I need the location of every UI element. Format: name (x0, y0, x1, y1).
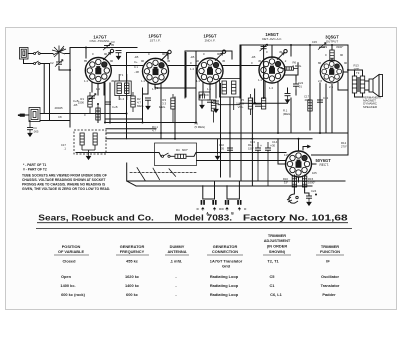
ground below grid box (200, 103, 204, 109)
wire stage5 drops (310, 45, 332, 133)
speaker (369, 75, 383, 97)
svg-text:45: 45 (279, 50, 283, 54)
wire stage2 top rail (127, 53, 169, 139)
ground below T1 (86, 154, 90, 160)
wire stage3 top rail (185, 51, 232, 98)
ground below C4 (28, 131, 32, 137)
svg-text:.00025: .00025 (54, 106, 63, 110)
svg-text:6 MEG.: 6 MEG. (293, 64, 303, 68)
capacitor C21 (213, 101, 219, 107)
loop antenna L1 (20, 48, 29, 60)
wire U4 extra stubs (265, 63, 298, 98)
wire interstage grid lines (111, 65, 259, 67)
svg-text:FREQUENCY: FREQUENCY (120, 249, 145, 254)
svg-text:Closed: Closed (63, 259, 77, 264)
resistor R2 (131, 92, 135, 112)
svg-text:0.1: 0.1 (134, 65, 138, 69)
svg-text:2.8: 2.8 (318, 79, 322, 83)
table top rule (36, 228, 352, 230)
svg-text:DET.-AVC-A.F.: DET.-AVC-A.F. (262, 37, 282, 41)
svg-text:Radiating Loop: Radiating Loop (210, 274, 239, 279)
svg-text:90: 90 (141, 59, 145, 63)
svg-text:CHASSIS. VOLTAGE READINGS SHO: CHASSIS. VOLTAGE READINGS SHOWN AT SOCKE… (22, 178, 105, 182)
svg-text:90: 90 (104, 52, 108, 56)
wire bus filament y152 (76, 153, 286, 157)
wire chassis box bottom (127, 163, 345, 186)
resistor R15 (302, 176, 306, 187)
capacitor C20 (145, 98, 151, 104)
svg-text:1.4: 1.4 (152, 87, 156, 91)
svg-text:1400 kc: 1400 kc (125, 283, 140, 288)
svg-text:35: 35 (111, 43, 115, 47)
svg-text:1.4: 1.4 (190, 67, 194, 71)
label U2 (149, 34, 162, 43)
svg-text:R4: R4 (176, 148, 180, 152)
svg-text:1600*: 1600* (308, 181, 316, 185)
wire bus B- y133 (106, 129, 348, 133)
label U5 (325, 35, 339, 44)
wire tube2 drops (143, 53, 197, 139)
svg-text:45: 45 (258, 59, 262, 63)
svg-text:90: 90 (344, 61, 348, 65)
svg-text:C12: C12 (323, 96, 329, 100)
svg-text:OSC.-TRANSL.: OSC.-TRANSL. (89, 39, 110, 43)
svg-text:1ST. I.F.: 1ST. I.F. (150, 39, 161, 43)
svg-text:1.4: 1.4 (258, 78, 262, 82)
svg-text:C5: C5 (270, 274, 276, 279)
capacitor C7 padder (88, 94, 96, 101)
svg-text:RECT.: RECT. (320, 163, 329, 167)
oscillator coil T5 (96, 104, 100, 120)
svg-text:-.08: -.08 (134, 70, 139, 74)
svg-text:.01: .01 (298, 85, 302, 89)
svg-text:# - PART OF T2: # - PART OF T2 (23, 168, 47, 172)
grid cap U2 (161, 50, 172, 61)
wire tube1 top feed (85, 48, 87, 59)
capacitor C24 (306, 196, 312, 200)
volume control R5 (248, 94, 256, 115)
capacitor C5 trimmer (260, 44, 268, 51)
svg-text:C8: C8 (58, 115, 62, 119)
tuning gang section B (222, 200, 247, 215)
svg-text:270*: 270* (341, 145, 348, 149)
phone plug P1 (18, 114, 24, 117)
capacitor C15 trimmer (318, 43, 326, 50)
grid cap U3 (215, 50, 226, 61)
junction dots (69, 44, 349, 154)
IF transformer T1 shield box (bottom) (74, 130, 106, 154)
capacitor C9 (207, 100, 213, 102)
variable capacitor C1 starburst (52, 46, 66, 58)
switch box outline (155, 143, 197, 166)
wire tube1 cathode drop (98, 83, 110, 123)
svg-text:105: 105 (312, 171, 317, 175)
svg-text:Radiating Loop: Radiating Loop (210, 283, 239, 288)
wire rect tube leads (278, 139, 316, 190)
electrolytic C13 (255, 142, 262, 181)
wire gangB stubs (227, 181, 239, 199)
svg-text:FUNCTION: FUNCTION (320, 249, 340, 254)
svg-text:1.4: 1.4 (141, 79, 145, 83)
svg-text:85: 85 (84, 59, 88, 63)
svg-text:ADJUSTMENT: ADJUSTMENT (264, 238, 291, 243)
svg-text:.005: .005 (33, 130, 39, 134)
svg-text:T1: T1 (120, 73, 124, 77)
svg-text:C2: C2 (50, 61, 54, 65)
capacitor C19 with ground (116, 51, 122, 60)
svg-text:90: 90 (110, 59, 114, 63)
resistor R8 (211, 100, 215, 123)
tube U3 1P5GT (197, 58, 223, 84)
wire U5 extra stubs (338, 83, 348, 91)
svg-text:.005: .005 (304, 98, 310, 102)
svg-text:C1: C1 (270, 283, 276, 288)
resistor R16 (292, 176, 296, 187)
svg-text:Model 7083.: Model 7083. (174, 213, 232, 222)
svg-text:455 kc: 455 kc (126, 259, 139, 264)
svg-text:1.4: 1.4 (120, 97, 124, 101)
resistor R6 (281, 67, 299, 70)
svg-text:-1B: -1B (134, 55, 138, 59)
grid coupling box (199, 92, 210, 103)
tube U2 1P5GT (143, 58, 169, 84)
resistor R11 (308, 100, 312, 130)
tube U5 3Q5GT (320, 60, 343, 83)
svg-text:T2, T1: T2, T1 (267, 259, 279, 264)
svg-text:C15: C15 (312, 40, 318, 44)
svg-text:C+: C+ (134, 60, 138, 64)
ground below C20 (146, 104, 150, 110)
svg-text:1.4: 1.4 (196, 79, 200, 83)
svg-text:600*: 600* (182, 148, 189, 152)
capacitor C3 trimmer (103, 43, 111, 50)
svg-text:117: 117 (284, 153, 289, 157)
switch S2 (34, 51, 41, 65)
wire bus y160 (197, 160, 286, 162)
svg-text:PRONGS ARE TO CHASSIS. WHERE: PRONGS ARE TO CHASSIS. WHERE NO READING … (22, 183, 106, 187)
svg-text:1.4: 1.4 (84, 79, 88, 83)
wire osc grid drops U1 (92, 82, 104, 123)
svg-text:ANTENNA: ANTENNA (167, 249, 186, 254)
wire antenna line (24, 54, 71, 121)
ground below C23 (285, 98, 289, 104)
svg-text:OF VARIABLE: OF VARIABLE (58, 249, 84, 254)
svg-text:Open: Open (61, 274, 72, 279)
header underlines (54, 254, 344, 256)
SMALL-LABELS (33, 40, 360, 193)
IF transformer T1 coils (top) (115, 74, 131, 100)
svg-text:600 kc (rock): 600 kc (rock) (61, 292, 85, 297)
wire tube5 right to rail (344, 71, 348, 73)
notes (22, 163, 110, 191)
svg-text:OUTPUT: OUTPUT (326, 40, 339, 44)
tuning gang section A (197, 200, 222, 215)
wire U2 extra stubs (143, 82, 149, 94)
wire bus y140 (106, 138, 312, 140)
wire U3 extra stubs (200, 82, 216, 98)
IF transformer T2 coils (218, 79, 241, 111)
svg-text:Radiating Loop: Radiating Loop (210, 292, 239, 297)
wavemagnet coupler box (29, 108, 40, 122)
label U3 (204, 34, 217, 43)
grid cap U4 (277, 50, 287, 60)
wire gangA stubs (203, 181, 215, 199)
svg-text:MEG.: MEG. (159, 105, 166, 109)
svg-text:Oscillator: Oscillator (321, 274, 339, 279)
wire stage3 drops (196, 45, 241, 181)
svg-text:C6, L1: C6, L1 (270, 292, 283, 297)
wire output transformer leads (348, 70, 369, 97)
svg-text:90: 90 (162, 52, 166, 56)
resistor R7 (261, 98, 265, 109)
svg-text:(MEG): (MEG) (283, 112, 291, 116)
svg-text:+: + (260, 144, 262, 148)
svg-text:C24: C24 (311, 189, 317, 193)
svg-text:30: 30 (272, 144, 276, 148)
svg-text:TUBE SOCKETS ARE VIEWED FROM U: TUBE SOCKETS ARE VIEWED FROM UNDER SIDE … (22, 174, 107, 178)
wire loop coupler lines (25, 114, 127, 121)
resistor R9 (330, 50, 334, 61)
svg-text:Factory No. 101,68: Factory No. 101,68 (243, 213, 349, 222)
svg-text:SPEAKER: SPEAKER (363, 105, 378, 109)
svg-text:VOL.: VOL. (238, 105, 245, 109)
svg-text:T3: T3 (356, 71, 360, 75)
svg-text:1.4: 1.4 (207, 87, 211, 91)
svg-text:86: 86 (318, 61, 322, 65)
svg-text:.1 mfd.: .1 mfd. (170, 259, 183, 264)
svg-text:* - PART OF T1: * - PART OF T1 (23, 163, 46, 167)
svg-text:(IN ORDER: (IN ORDER (267, 244, 288, 249)
ground right of switch box (215, 139, 219, 160)
capacitor C12 (317, 100, 323, 102)
wire detector cluster (240, 75, 320, 133)
wire power plug leads (294, 190, 309, 196)
power plug (287, 194, 298, 203)
electrolytic C14 (265, 142, 272, 186)
svg-text:-1B: -1B (251, 55, 255, 59)
svg-text:1400 kc.: 1400 kc. (60, 283, 75, 288)
capacitor C10 (227, 142, 233, 156)
svg-text:175*: 175* (354, 67, 361, 71)
band switch levers (137, 168, 176, 181)
wire stage4 top rail (240, 45, 348, 98)
grid cap U1 (103, 49, 114, 60)
svg-text:90: 90 (340, 53, 344, 57)
alignment table (54, 233, 344, 297)
svg-text:150*: 150* (248, 147, 255, 151)
svg-text:Padder: Padder (322, 292, 336, 297)
ground below C24 (307, 200, 311, 206)
svg-text:.05: .05 (220, 147, 224, 151)
capacitor C22 (293, 80, 299, 90)
wire stage4 drops (252, 45, 291, 186)
svg-text:600 kc: 600 kc (126, 292, 139, 297)
svg-text:1500: 1500 (78, 101, 85, 105)
switch S1 (161, 153, 170, 157)
svg-text:4.7: 4.7 (152, 129, 156, 133)
svg-text:90: 90 (196, 59, 200, 63)
svg-text:2.8: 2.8 (329, 85, 333, 89)
resistor R1 (88, 92, 92, 114)
title underline (37, 222, 348, 224)
svg-text:1.4: 1.4 (269, 86, 273, 90)
svg-text:CONNECTION: CONNECTION (212, 249, 238, 254)
capacitor C18 (105, 102, 111, 104)
ground below C21 (214, 107, 218, 113)
capacitor C19 (255, 104, 261, 106)
tube U4 1H5GT (259, 57, 285, 83)
svg-text:45: 45 (167, 59, 171, 63)
title (38, 213, 348, 222)
svg-text:45: 45 (111, 79, 115, 83)
svg-text:1620 kc: 1620 kc (125, 274, 140, 279)
label U1 (89, 34, 110, 43)
svg-text:R9: R9 (323, 45, 327, 49)
svg-text:2ND I.F.: 2ND I.F. (205, 39, 216, 43)
wire right rail (347, 45, 349, 153)
resistor R3 (171, 94, 175, 123)
tube U6 50Y6GT rectifier (286, 151, 312, 177)
svg-text:C9: C9 (205, 93, 209, 97)
svg-text:Grid: Grid (222, 264, 231, 269)
capacitor C23 (285, 94, 291, 98)
svg-text:90: 90 (217, 52, 221, 56)
svg-text:-1B: -1B (190, 55, 194, 59)
svg-text:C13: C13 (250, 140, 256, 144)
output transformer T3 (352, 76, 364, 93)
label speaker (363, 95, 382, 109)
trimmer C2 (55, 60, 63, 67)
svg-text:(5 MEG): (5 MEG) (195, 125, 206, 129)
wire bus AVC y122 (105, 83, 196, 123)
svg-text:1.4: 1.4 (96, 87, 100, 91)
svg-text:3300*: 3300* (336, 45, 344, 49)
svg-text:Sears, Roebuck and Co.: Sears, Roebuck and Co. (38, 213, 153, 222)
svg-text:SHOWN): SHOWN) (269, 249, 286, 254)
label U6 (316, 158, 332, 167)
wire rect heater jogs (283, 145, 348, 155)
tube U1 1A7GT (85, 58, 111, 84)
capacitor C4 (27, 120, 33, 131)
wire plate rail stage1 (70, 48, 137, 128)
svg-text:MEG.: MEG. (137, 104, 144, 108)
resistor R4 (170, 154, 194, 158)
svg-text:Translator: Translator (321, 283, 340, 288)
wire gang dashed link (130, 172, 196, 174)
svg-text:45: 45 (222, 59, 226, 63)
svg-text:GIVEN, THE VOLTAGE IS ZERO OR: GIVEN, THE VOLTAGE IS ZERO OR TOO LOW TO… (22, 187, 110, 191)
label U4 (262, 32, 282, 41)
junction dot B+ (315, 194, 317, 196)
svg-text:C+B: C+B (112, 105, 118, 109)
